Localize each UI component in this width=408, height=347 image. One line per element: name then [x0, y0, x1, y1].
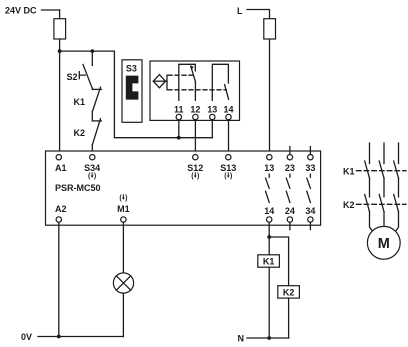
contact K2 (NO feedback)	[92, 119, 101, 145]
label K2 contactor	[343, 200, 355, 210]
relay PSR-MC50 body	[46, 151, 321, 225]
label S2	[67, 72, 78, 82]
terminal circle 14	[226, 114, 231, 119]
svg-text:12: 12	[190, 105, 200, 115]
switch S2 (NC pushbutton)	[79, 65, 92, 90]
node junction door contact 11	[177, 136, 181, 140]
label S34	[84, 163, 100, 180]
terminal A2	[56, 217, 61, 222]
wire K1 coil to N	[268, 267, 270, 338]
svg-text:A1: A1	[55, 163, 67, 173]
terminal 14	[267, 217, 272, 222]
svg-text:13: 13	[207, 105, 217, 115]
svg-text:14: 14	[223, 105, 233, 115]
svg-text:11: 11	[174, 105, 184, 115]
svg-text:S2: S2	[67, 72, 78, 82]
door contact 13-14 (NC)	[212, 64, 228, 100]
svg-text:): )	[125, 195, 127, 202]
svg-text:K1: K1	[343, 166, 355, 176]
terminal M1	[121, 217, 126, 222]
node N label	[238, 334, 245, 344]
svg-text:L: L	[237, 6, 243, 16]
svg-text:13: 13	[264, 163, 274, 173]
svg-text:M: M	[378, 236, 390, 252]
wire door 13 down	[211, 120, 213, 138]
label 24	[285, 206, 295, 216]
node junction A2 0V	[57, 335, 61, 339]
svg-text:24V DC: 24V DC	[5, 6, 37, 16]
terminal A1	[56, 155, 61, 160]
node 24V DC label	[5, 6, 37, 16]
stub above 23	[289, 147, 291, 155]
node junction K1/K2 branch	[267, 235, 271, 239]
terminal 23	[287, 155, 292, 160]
label 34	[305, 206, 315, 216]
switch S3 enclosure	[122, 60, 142, 123]
mechanical link dashed lower	[168, 89, 226, 91]
fuse F1	[54, 19, 66, 39]
wire S2 upper	[91, 51, 93, 65]
terminal S34	[90, 155, 95, 160]
svg-text:14: 14	[264, 206, 274, 216]
node L label	[237, 6, 243, 16]
label K1 contactor	[343, 166, 355, 176]
label K2	[74, 128, 86, 138]
label PSR-MC50	[55, 183, 101, 193]
mechanical link dashed upper	[168, 74, 193, 76]
svg-text:M1: M1	[117, 204, 130, 214]
wire N rail	[247, 337, 289, 339]
wire 0V rail	[38, 336, 123, 338]
contact K1 main poles	[365, 161, 399, 178]
label A2	[55, 204, 67, 214]
svg-text:A2: A2	[55, 204, 67, 214]
node junction K1 N	[267, 336, 271, 340]
svg-text:S34: S34	[84, 163, 100, 173]
svg-text:0V: 0V	[21, 332, 32, 342]
contact 33-34 internal	[307, 174, 311, 202]
wire L feed	[247, 10, 270, 155]
terminal 24	[287, 217, 292, 222]
wire phase L3 upper	[398, 143, 400, 164]
wire 14 output down	[268, 222, 270, 255]
node junction 24V rail	[58, 49, 62, 53]
label pin 11	[174, 105, 184, 115]
node junction S2 branch	[90, 49, 94, 53]
contact 23-24 internal	[286, 174, 290, 202]
wire door 12 to S12	[194, 120, 196, 155]
node 0V label	[21, 332, 32, 342]
label S13	[220, 163, 236, 180]
contact K2 main poles	[365, 194, 399, 211]
label K1	[74, 97, 86, 107]
switch S3 icon	[126, 76, 139, 100]
label pin 12	[190, 105, 200, 115]
wire 24V vertical to A1	[59, 10, 61, 154]
stub below 24	[289, 222, 291, 229]
wire lamp to 0V	[122, 293, 124, 336]
svg-text:): )	[197, 173, 199, 180]
wire 24V feed horizontal	[42, 9, 60, 11]
svg-text:): )	[94, 173, 96, 180]
svg-text:23: 23	[285, 163, 295, 173]
svg-text:34: 34	[305, 206, 315, 216]
wire branch to K2 coil	[269, 237, 288, 286]
wire door 14 to S13	[228, 120, 230, 155]
label 13	[264, 163, 274, 173]
wire K2 coil to N	[288, 298, 290, 338]
label 33	[305, 163, 315, 173]
label S3	[126, 63, 137, 73]
svg-text:24: 24	[285, 206, 295, 216]
wire phase middles	[370, 178, 399, 197]
coil K1	[258, 255, 280, 267]
terminal circle 13	[210, 114, 215, 119]
svg-text:K1: K1	[263, 257, 275, 267]
svg-text:K2: K2	[343, 200, 355, 210]
label 23	[285, 163, 295, 173]
label 14	[264, 206, 274, 216]
mechanical link K1 dashed	[357, 170, 407, 172]
stub below 34	[309, 222, 311, 229]
coil K2	[278, 286, 300, 298]
svg-text:K2: K2	[283, 288, 295, 298]
svg-text:S12: S12	[187, 163, 203, 173]
actuator diamond symbol	[153, 75, 167, 90]
svg-text:S13: S13	[220, 163, 236, 173]
contact 13-14 internal	[266, 174, 270, 202]
wire A2 to 0V	[58, 222, 60, 336]
svg-text:): )	[230, 173, 232, 180]
svg-text:N: N	[238, 334, 245, 344]
wire phases into motor	[370, 212, 399, 233]
lamp indicator	[113, 273, 133, 293]
wire door 11 down	[178, 120, 180, 138]
terminal circle 12	[193, 114, 198, 119]
label pin 13	[207, 105, 217, 115]
svg-text:K1: K1	[74, 97, 86, 107]
svg-text:33: 33	[305, 163, 315, 173]
safety door switch enclosure	[150, 61, 240, 120]
terminal 33	[308, 155, 313, 160]
wire 24V branch to sensors	[60, 51, 213, 138]
svg-text:PSR-MC50: PSR-MC50	[55, 183, 101, 193]
wire phase L2 upper	[383, 143, 385, 164]
terminal S12	[193, 155, 198, 160]
svg-text:K2: K2	[74, 128, 86, 138]
motor M	[367, 226, 400, 259]
label S12	[187, 163, 203, 180]
terminal 34	[308, 217, 313, 222]
label A1	[55, 163, 67, 173]
wire between K1 and K2	[91, 112, 93, 121]
wire M1 to lamp	[122, 222, 124, 273]
fuse F2	[264, 19, 276, 39]
stub above 33	[309, 147, 311, 155]
terminal S13	[226, 155, 231, 160]
mechanical link K2 dashed	[357, 203, 407, 205]
label pin 14	[223, 105, 233, 115]
wire K2 to S34	[91, 145, 93, 155]
terminal circle 11	[176, 114, 181, 119]
terminal 13	[267, 155, 272, 160]
svg-text:S3: S3	[126, 63, 137, 73]
wire phase L1 upper	[369, 143, 371, 164]
door contact 11-12 (NC)	[179, 64, 196, 100]
label M1	[117, 194, 130, 214]
contact K1 (NO feedback)	[92, 87, 101, 112]
